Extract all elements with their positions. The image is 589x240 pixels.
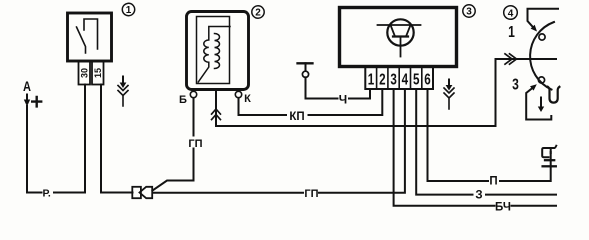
wire from S1 terminal 15 down and right to connector X1 xyxy=(101,85,133,193)
coil HV output lead xyxy=(215,90,217,126)
switch S1 internal fixed contacts xyxy=(84,19,98,49)
spark direction arrow xyxy=(540,98,542,107)
wire node P to S1 terminal 30 xyxy=(54,192,85,194)
svg-text:Р.: Р. xyxy=(43,188,51,200)
arrowhead to contact 3 xyxy=(530,84,537,90)
svg-text:А: А xyxy=(23,79,31,94)
pin numbers 1-6 xyxy=(368,71,431,88)
arrowhead to contact 1 xyxy=(531,25,537,32)
plug/socket symbol near U1 (socket chevrons) xyxy=(444,88,454,109)
svg-text:З: З xyxy=(475,190,482,202)
wire to distributor contact 3 xyxy=(526,89,551,120)
coil T1 secondary winding xyxy=(215,34,220,69)
commutator U1 (item 3) body xyxy=(340,8,457,67)
coil T1 primary winding xyxy=(198,27,230,83)
wire to distributor contact 1 xyxy=(528,9,559,27)
svg-text:3: 3 xyxy=(512,75,519,93)
spark plug symbol on wire P xyxy=(542,146,556,167)
ignition coil T1 (item 2) body xyxy=(187,12,249,90)
terminal B of T1 xyxy=(179,91,197,106)
svg-text:ГП: ГП xyxy=(188,138,202,150)
plus polarity label xyxy=(32,97,41,106)
svg-text:5: 5 xyxy=(413,71,420,88)
wire GP long run from connector X1 to pin 4 xyxy=(153,192,304,194)
svg-text:3: 3 xyxy=(390,71,397,88)
wire KP from terminal K xyxy=(239,98,287,115)
svg-text:1: 1 xyxy=(368,71,375,88)
wire from node A down to node P xyxy=(27,106,42,193)
terminal 15 of S1 xyxy=(92,62,104,85)
distributor (item 4) circled number xyxy=(504,6,518,20)
wire BCh from pin 3 xyxy=(394,89,495,206)
ignition switch S1 (item 1) body xyxy=(68,13,112,61)
item number 3 (circled) xyxy=(463,5,475,18)
wire Ch right segment to pin 1 xyxy=(349,89,370,99)
svg-text:П: П xyxy=(489,176,497,188)
item number 2 (circled) xyxy=(252,6,264,19)
svg-text:3: 3 xyxy=(466,7,472,18)
wire KP to commutator pin 2 xyxy=(309,89,383,115)
connector X1 socket half xyxy=(132,187,141,198)
connector X1 plug half xyxy=(140,187,153,198)
wire Z right segment xyxy=(486,194,556,196)
svg-text:Б: Б xyxy=(179,94,187,106)
svg-text:15: 15 xyxy=(93,68,103,78)
svg-text:БЧ: БЧ xyxy=(495,202,511,214)
svg-text:К: К xyxy=(244,93,251,105)
svg-text:Ч: Ч xyxy=(339,93,347,107)
spark gap electrode (U shape) xyxy=(548,87,560,103)
item number 1 (circled) xyxy=(122,3,134,16)
distributor contact 1 xyxy=(539,34,545,40)
svg-text:1: 1 xyxy=(508,23,515,41)
distributor rotor arc xyxy=(530,22,554,90)
distributor contact 3 xyxy=(538,77,544,83)
coil T1 core frame xyxy=(197,17,230,84)
wire Z from pin 5 xyxy=(416,89,472,195)
HV arrow chevrons into distributor xyxy=(505,54,517,64)
wire BCh right segment xyxy=(512,205,557,207)
U1 terminal strip xyxy=(365,67,433,89)
terminal 30 of S1 xyxy=(79,62,91,85)
switch S1 movable blade xyxy=(77,27,86,53)
svg-text:2: 2 xyxy=(255,8,261,19)
current direction arrow below node A xyxy=(26,95,28,101)
wire P right segment up to spark plug xyxy=(500,152,551,181)
HV wire to distributor xyxy=(216,59,556,126)
HV plug chevrons (mating arrows) xyxy=(212,109,221,120)
breaker pickup contact (to pin 1) xyxy=(298,63,313,77)
transistor symbol inside U1 xyxy=(378,19,421,56)
plug/socket symbol near S1 (arrow) xyxy=(122,77,124,84)
svg-text:30: 30 xyxy=(80,68,90,78)
wire GP right segment to pin 4 xyxy=(319,89,405,193)
plug/socket symbol near U1 (arrow) xyxy=(448,80,450,86)
wire Ch from pickup to pin 1 xyxy=(306,77,338,98)
plug/socket symbol near S1 (socket chevrons) xyxy=(118,86,128,107)
svg-text:КП: КП xyxy=(289,111,304,123)
svg-text:1: 1 xyxy=(126,5,132,16)
wire GP from terminal B down xyxy=(153,98,194,191)
wire from S1 terminal 30 down xyxy=(84,85,86,193)
svg-text:ГП: ГП xyxy=(304,188,318,200)
svg-text:4: 4 xyxy=(402,71,409,88)
svg-text:4: 4 xyxy=(508,8,514,19)
svg-text:6: 6 xyxy=(424,71,431,88)
wire label GP (vertical run) xyxy=(188,137,204,151)
terminal K of T1 xyxy=(235,91,251,105)
wire P from pin 6 xyxy=(428,89,489,181)
svg-text:2: 2 xyxy=(379,71,386,88)
